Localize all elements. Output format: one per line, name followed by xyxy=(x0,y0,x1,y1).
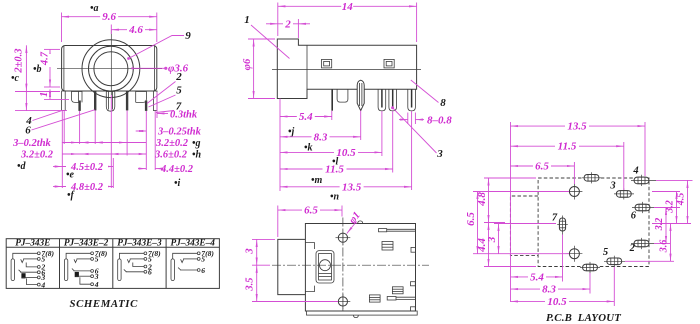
dimension 11.5 xyxy=(280,164,393,176)
dimension row 3-0.2thk / 3.2±0.2 g xyxy=(12,138,200,149)
svg-text:SCHEMATIC: SCHEMATIC xyxy=(69,298,138,310)
pcb hole top xyxy=(566,184,582,200)
svg-text:6.5: 6.5 xyxy=(304,205,318,217)
svg-text:3: 3 xyxy=(245,248,256,254)
svg-text:PJ–343E–3: PJ–343E–3 xyxy=(117,239,162,249)
pcb dimension 4.8 left xyxy=(476,178,489,223)
dimension 3.5 bottom view xyxy=(245,265,257,301)
cell4 sleeve bar xyxy=(171,259,174,281)
cell2 wire tip to 7(8) xyxy=(66,253,91,259)
svg-text:10.5: 10.5 xyxy=(547,296,567,308)
svg-text:2±0.3: 2±0.3 xyxy=(14,48,25,73)
pcb dimension 10.5 xyxy=(511,296,615,308)
leader and label 2 xyxy=(147,71,182,104)
side view round pin 1 xyxy=(378,89,386,111)
dimension 5.4 xyxy=(280,111,332,123)
extension line right leg xyxy=(154,111,156,170)
cell2 pin 7(8) xyxy=(91,252,94,255)
cell2 pin 5 xyxy=(91,258,94,261)
pcb dimension 8.3 xyxy=(511,284,591,296)
svg-text:4.8: 4.8 xyxy=(476,192,488,207)
cell3 pin 5 xyxy=(144,258,147,261)
svg-text:•m: •m xyxy=(311,175,323,186)
extension line pin x64 xyxy=(63,111,65,144)
dimension phi6 extension ticks xyxy=(248,39,275,99)
svg-text:PJ–343E: PJ–343E xyxy=(15,239,50,249)
bottom view contact pad upper xyxy=(382,242,393,251)
svg-text:6: 6 xyxy=(201,266,205,275)
svg-text:1: 1 xyxy=(244,14,250,26)
pcb pad top edge xyxy=(582,172,601,183)
schematic cell PJ-343E xyxy=(11,249,54,289)
side view round pin 2 xyxy=(389,89,397,111)
cell1 pin 5 xyxy=(37,258,40,261)
extension line pin x95.2 xyxy=(94,111,96,145)
extension line right leg outer xyxy=(156,92,158,118)
svg-text:10.5: 10.5 xyxy=(336,147,356,159)
cell3 pin 6 xyxy=(144,270,147,273)
pcb dimension 3.2 right b xyxy=(664,192,676,224)
svg-text:11.5: 11.5 xyxy=(325,164,344,176)
dimension 2 extension line xyxy=(297,19,299,38)
cell3 wire pin6 with contact xyxy=(126,271,144,273)
svg-text:2: 2 xyxy=(175,71,182,83)
svg-text:PJ–343E–2: PJ–343E–2 xyxy=(64,239,109,249)
svg-text:3–0.2thk: 3–0.2thk xyxy=(12,138,51,149)
cell1 pin 3 xyxy=(37,276,40,279)
bottom view mounting hole bottom xyxy=(336,294,351,309)
cell2 pin 6 xyxy=(91,270,94,273)
cell1 sleeve bar xyxy=(11,259,14,281)
svg-text:8.3: 8.3 xyxy=(314,131,328,143)
side view flat tab pin xyxy=(337,89,348,102)
front view left shield slot xyxy=(72,92,83,103)
pcb dimension 3 left xyxy=(486,224,499,254)
cell2 wire pin6 with contact and block xyxy=(74,270,91,272)
svg-text:5: 5 xyxy=(201,255,205,264)
bottom view dim extension ticks xyxy=(252,239,338,301)
svg-text:13.5: 13.5 xyxy=(342,181,362,193)
bottom view long thin bar lower xyxy=(387,297,415,301)
dimension 4.7 vertical line xyxy=(39,49,52,87)
side view round pin 3 xyxy=(408,89,416,111)
svg-text:P.C.B LAYOUT: P.C.B LAYOUT xyxy=(546,312,621,324)
svg-text:•i: •i xyxy=(174,178,181,189)
cell2 wire pin5 with switch contact xyxy=(77,258,91,260)
svg-text:8: 8 xyxy=(440,97,446,109)
pcb pad 4 xyxy=(631,166,656,187)
extension ticks left of front view xyxy=(15,49,69,110)
dimension 2 front lip xyxy=(266,18,310,30)
svg-text:4.5: 4.5 xyxy=(675,193,686,207)
svg-text:5.4: 5.4 xyxy=(530,271,544,283)
svg-text:•d: •d xyxy=(17,161,27,172)
cell1 wire pin5 with switch contact xyxy=(23,258,37,260)
front view right mounting leg xyxy=(153,91,157,111)
cell1 wire pin2 link xyxy=(26,263,37,267)
schematic cell PJ-343E-2 xyxy=(64,249,107,289)
dimension 2±0.3 vertical line xyxy=(14,45,27,110)
cell1 wire tip to 7(8) xyxy=(13,253,38,259)
dimension 4.6 xyxy=(111,24,157,36)
dimension 10.5 xyxy=(280,147,382,159)
svg-text:4.8±0.2: 4.8±0.2 xyxy=(70,182,104,193)
svg-text:3.2±0.2: 3.2±0.2 xyxy=(155,138,189,149)
cell2 wire pin4 link xyxy=(80,277,91,284)
bottom view contact pad lower middle xyxy=(392,287,403,294)
svg-text:•j: •j xyxy=(288,127,295,138)
pcb dimension 4.4 left xyxy=(476,223,489,267)
leader and label 7 xyxy=(156,101,182,113)
dimension 3-0.25thk xyxy=(136,127,202,138)
svg-text:6: 6 xyxy=(631,211,637,222)
bottom view right notch lower 1 xyxy=(411,282,416,286)
cell2 pin 3 xyxy=(91,275,94,278)
dimension 8.3 xyxy=(280,131,361,143)
schematic table frame xyxy=(6,239,219,289)
cell1 wire pin6 with contact and block xyxy=(20,271,37,273)
dimension 14 overall length xyxy=(278,1,417,13)
side view lower extension lines xyxy=(280,99,412,192)
leader and label 4 xyxy=(25,110,62,127)
bottom view top edge bump xyxy=(358,221,363,224)
front view body outline xyxy=(62,46,157,92)
cell3 wire pin5 with switch contact xyxy=(130,258,144,260)
cell3 wire tip to 7(8) xyxy=(119,253,144,259)
bottom view barrel outline xyxy=(278,239,315,294)
leader and label 1 xyxy=(244,14,289,59)
cell4 pin 5 xyxy=(197,258,200,261)
side view centerline xyxy=(272,69,421,71)
leader and label dia 3.6 xyxy=(131,62,188,74)
pcb bottom dimension extension lines xyxy=(563,235,615,307)
pcb pad 2 xyxy=(629,238,654,254)
front view pin (right U-bracket pin) xyxy=(145,101,147,111)
cell3 pin 2 xyxy=(144,265,147,268)
pcb left extension lines xyxy=(473,178,569,267)
svg-text:3.6: 3.6 xyxy=(658,240,669,254)
cell3 sleeve bar xyxy=(118,259,121,281)
svg-text:8–0.8: 8–0.8 xyxy=(427,114,452,126)
extension line center pin xyxy=(110,95,112,188)
bottom view body outline xyxy=(305,224,415,312)
pcb dimension 6.5 left xyxy=(465,192,478,254)
front view centerlines xyxy=(57,30,162,95)
svg-text:3–0.25thk: 3–0.25thk xyxy=(157,127,202,138)
front view left mounting leg xyxy=(62,91,66,111)
bottom view bottom flange xyxy=(307,311,418,318)
cell4 pin 6 xyxy=(197,269,200,272)
pcb pad 6 xyxy=(631,202,654,222)
cell3 pin 7(8) xyxy=(144,252,147,255)
dimension 3 bottom view xyxy=(245,239,257,265)
extension line x113 for 4.5/4.8 dims xyxy=(112,158,114,188)
dimension 4.8±0.2 xyxy=(53,181,113,194)
leader and label 6 xyxy=(25,110,94,137)
dimension 4.4±0.2 xyxy=(138,164,194,175)
bottom view horizontal centerline xyxy=(272,264,429,266)
bottom view vertical dashed axis xyxy=(342,218,344,312)
pcb dimension 3.6 right xyxy=(658,224,670,262)
svg-text:3.2±0.2: 3.2±0.2 xyxy=(20,150,54,161)
svg-text:5: 5 xyxy=(176,85,182,97)
extension line from left leg xyxy=(61,111,63,188)
cell1 wire pin4 link xyxy=(27,278,38,284)
extension line pin x79.6 xyxy=(79,111,81,144)
cell3 wire pin2 link xyxy=(133,263,144,267)
pcb layout barrel dashed outline xyxy=(510,196,538,256)
dimension 6.5 bottom view xyxy=(278,205,342,217)
svg-text:11.5: 11.5 xyxy=(558,141,577,153)
svg-text:φ6: φ6 xyxy=(242,58,253,70)
svg-text:4.5±0.2: 4.5±0.2 xyxy=(70,162,104,173)
svg-text:3: 3 xyxy=(486,236,498,243)
dimension 1 vertical line xyxy=(39,89,50,99)
dimension 14 extension lines xyxy=(278,3,417,43)
svg-text:•k: •k xyxy=(304,142,313,153)
side view thin pin at 332 xyxy=(331,89,333,110)
side view face bump right xyxy=(384,59,394,68)
svg-text:•c: •c xyxy=(11,73,20,84)
dimension 8-0.8 pin width xyxy=(399,113,452,127)
cell4 wire pin5 with switch contact xyxy=(183,258,197,260)
front view pin (left U-bracket pin) xyxy=(78,101,80,111)
cell1 pin 6 xyxy=(37,271,40,274)
svg-text:3.2: 3.2 xyxy=(654,218,665,232)
schematic cell PJ-343E-3 xyxy=(118,249,161,281)
svg-text:4: 4 xyxy=(40,280,45,289)
dimension 0.3thk xyxy=(157,109,198,120)
svg-text:4.7: 4.7 xyxy=(39,51,50,66)
cell1 wire pin3 xyxy=(22,276,37,278)
pcb dimension 4.5 right xyxy=(675,180,687,223)
side view center blade pin xyxy=(357,80,364,110)
svg-text:3.5: 3.5 xyxy=(245,277,256,291)
svg-text:13.5: 13.5 xyxy=(567,121,587,133)
dimension 9.6 extension lines xyxy=(62,13,157,43)
svg-text:7: 7 xyxy=(552,213,558,224)
leader and label 5 xyxy=(149,85,183,108)
cell1 pin 2 xyxy=(37,266,40,269)
svg-text:6.5: 6.5 xyxy=(465,212,477,226)
leader and label 8 xyxy=(411,80,446,109)
bottom view mounting hole top xyxy=(336,230,351,245)
dimension 13.5 xyxy=(280,181,412,193)
svg-text:•e: •e xyxy=(66,170,75,181)
svg-text:•n: •n xyxy=(330,191,340,202)
cell2 sleeve bar xyxy=(64,259,67,281)
bottom view right notch lower 2 xyxy=(411,307,416,311)
dimension 4.5±0.2 xyxy=(53,161,113,174)
cell4 wire pin6 with contact xyxy=(180,269,197,271)
svg-text:2: 2 xyxy=(629,243,636,254)
svg-text:0.3thk: 0.3thk xyxy=(170,109,198,120)
cell2 wire pin3 xyxy=(76,275,91,277)
svg-text:3.2: 3.2 xyxy=(664,200,675,214)
svg-text:4: 4 xyxy=(94,280,99,289)
svg-text:5: 5 xyxy=(603,247,608,258)
svg-text:•a: •a xyxy=(90,3,99,14)
dimension 4.6 tick at center xyxy=(110,25,112,35)
pcb dimension 11.5 xyxy=(511,141,624,153)
pcb right extension lines xyxy=(625,180,693,261)
svg-text:5: 5 xyxy=(95,255,99,264)
svg-text:2: 2 xyxy=(284,18,291,30)
svg-text:3: 3 xyxy=(436,148,443,160)
svg-text:4: 4 xyxy=(632,166,638,177)
svg-text:PJ–343E–4: PJ–343E–4 xyxy=(170,239,215,249)
front view center sleeve pin xyxy=(106,92,115,112)
svg-text:8.3: 8.3 xyxy=(542,284,556,296)
pcb layout main dashed outline xyxy=(538,178,649,267)
svg-text:4.4±0.2: 4.4±0.2 xyxy=(160,164,194,175)
bottom view center mechanism housing xyxy=(316,251,334,283)
pcb dimension 5.4 xyxy=(511,271,563,283)
bottom view right notch upper xyxy=(411,247,416,252)
svg-text:14: 14 xyxy=(342,1,354,13)
cell2 pin 4 xyxy=(91,283,94,286)
side view face bump left xyxy=(322,59,332,68)
dimension 9.6 overall width xyxy=(62,11,157,23)
svg-text:9.6: 9.6 xyxy=(102,11,116,23)
pcb hole bottom xyxy=(566,246,582,262)
svg-text:6: 6 xyxy=(25,125,31,137)
cell4 pin 7(8) xyxy=(197,252,200,255)
extension line pin x127 xyxy=(126,111,128,156)
bottom view contact window top bar xyxy=(379,229,416,232)
pcb pad 3 xyxy=(609,181,634,200)
pcb pad 7 xyxy=(552,213,568,235)
svg-text:9: 9 xyxy=(185,30,191,42)
leader and label 3 xyxy=(391,106,443,160)
svg-text:1: 1 xyxy=(39,92,50,97)
cell4 wire tip to 7(8) xyxy=(173,253,198,259)
dimension row 3.2±0.2 / 3.6±0.2 h xyxy=(20,150,202,161)
bottom view contact pad lower left xyxy=(369,295,380,302)
svg-text:4.6: 4.6 xyxy=(128,24,143,36)
front view right shield slot xyxy=(136,92,147,103)
pcb dimension 3.2 right a xyxy=(654,208,666,244)
svg-text:5.4: 5.4 xyxy=(299,111,313,123)
front view pin at 95 xyxy=(94,92,96,111)
svg-text:•h: •h xyxy=(192,150,202,161)
svg-text:3.6±0.2: 3.6±0.2 xyxy=(154,150,188,161)
extension line pin x146.5 xyxy=(145,111,147,170)
pcb dimension 13.5 xyxy=(511,121,646,133)
schematic cell PJ-343E-4 xyxy=(171,249,214,281)
cell1 pin 4 xyxy=(37,283,40,286)
cell1 pin 7(8) xyxy=(37,252,40,255)
pcb top dimension extension lines xyxy=(511,122,646,302)
dimension phi6 barrel diameter xyxy=(242,39,254,99)
leader and label 9 xyxy=(127,30,191,60)
svg-text:3: 3 xyxy=(609,181,615,192)
leader and label phi1 xyxy=(347,210,363,233)
pcb pad 5 xyxy=(603,247,625,267)
front view concentric circles (jack barrel opening) xyxy=(82,40,140,98)
front view pin at 127 xyxy=(126,92,128,111)
svg-text:6: 6 xyxy=(148,268,152,277)
pcb pad bottom edge xyxy=(580,262,600,273)
svg-text:•g: •g xyxy=(192,138,201,149)
svg-text:6.5: 6.5 xyxy=(535,161,549,173)
pcb dimension 6.5 xyxy=(511,161,575,173)
side view body outline xyxy=(277,39,416,99)
dimension 6.5 extension lines bottom view xyxy=(278,206,342,238)
